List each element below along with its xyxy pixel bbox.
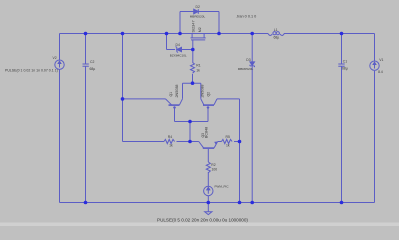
svg-text:8.4: 8.4 (378, 70, 383, 74)
svg-text:1k: 1k (226, 144, 230, 148)
wire R5 row right (234, 141, 240, 143)
transistor Q1 (166, 99, 183, 105)
svg-text:MBR0520L: MBR0520L (238, 67, 254, 71)
diode D3 (250, 62, 255, 67)
resistor R1 (191, 63, 195, 74)
transistor Q2 (201, 99, 217, 105)
wire bottom rail (60, 202, 375, 204)
svg-text:68µ: 68µ (342, 67, 348, 71)
wire Q2 collector (200, 83, 202, 99)
voltage source V1 (370, 61, 379, 70)
svg-text:PULSE(0 1 0.02 1n 1n 0.07 0.1: PULSE(0 1 0.02 1n 1n 0.07 0.1 1) (5, 69, 58, 73)
voltage source V3 PWM_PIC (204, 186, 213, 195)
wire R1 bottom (192, 74, 194, 83)
wire C1 bottom (341, 67, 343, 203)
wire emitter junction drop (189, 122, 191, 142)
resistor R5 (222, 139, 233, 143)
wire M2 gate down (192, 40, 194, 63)
svg-text:D3: D3 (246, 58, 250, 62)
capacitor C1 (338, 64, 344, 66)
svg-text:BC848: BC848 (205, 127, 209, 138)
resistor R4 (164, 139, 175, 143)
wire D3 top (251, 34, 253, 62)
svg-text:R4: R4 (168, 135, 172, 139)
wire C2 top (85, 34, 87, 64)
svg-text:R2: R2 (211, 163, 215, 167)
svg-text:Q2: Q2 (206, 92, 210, 97)
transistor M2 (191, 34, 206, 40)
svg-text:PULSE(0 5 0.02 20n 20n 0.00u 0: PULSE(0 5 0.02 20n 20n 0.00u 0u 1000000) (157, 218, 248, 223)
wire V1 bottom (374, 71, 376, 203)
wire R2 to source (207, 172, 209, 186)
wire V2 top (59, 34, 61, 61)
wire top loop horizontal (180, 11, 219, 13)
wire source to rail (207, 196, 209, 203)
svg-text:2N5088: 2N5088 (200, 85, 204, 98)
wire emitter rail (175, 121, 209, 123)
inductor L1 (268, 32, 284, 36)
svg-text:C1: C1 (343, 59, 347, 63)
svg-text:D2: D2 (196, 5, 200, 9)
wire top loop left vertical (179, 12, 181, 34)
wire Q1 emitter (174, 107, 176, 122)
transistor Q3 (199, 142, 218, 149)
wire C2 bottom (85, 67, 87, 203)
svg-text:68µ: 68µ (90, 67, 96, 71)
svg-text:Si2347: Si2347 (190, 20, 195, 32)
wire D3 bottom (251, 67, 253, 203)
wire V1 top (374, 34, 376, 61)
svg-text:.tran 0 0.1 0: .tran 0 0.1 0 (236, 14, 256, 18)
wire D4 right (182, 49, 193, 51)
wire x239 vertical (239, 99, 241, 203)
wire D4 drop (166, 34, 168, 50)
svg-text:1k: 1k (196, 69, 200, 73)
arrow Q2 emitter (207, 106, 210, 110)
diode D2 (194, 9, 199, 14)
svg-text:68µ: 68µ (274, 36, 280, 40)
arrow Q3 emitter (214, 142, 217, 145)
wire Q3 bottom pin (207, 149, 209, 162)
resistor R2 (206, 162, 210, 173)
wire R5 row left (218, 141, 222, 143)
svg-text:R5: R5 (226, 135, 230, 139)
wire C1 top (341, 34, 343, 64)
ground (205, 212, 212, 215)
wire top loop right vertical (218, 12, 220, 34)
wire R4 row right (177, 141, 191, 143)
svg-text:D4: D4 (176, 43, 180, 47)
svg-text:L1: L1 (274, 28, 278, 32)
wire D4 left (167, 49, 176, 51)
svg-text:C2: C2 (90, 60, 94, 64)
svg-text:V1: V1 (379, 58, 383, 62)
svg-text:R1: R1 (196, 63, 200, 67)
wire top rail (60, 33, 269, 35)
wire Q1 collector (182, 83, 184, 99)
svg-text:Q1: Q1 (169, 92, 173, 97)
wire Q3 base (190, 141, 199, 143)
wire Q2 base to corner (217, 98, 240, 100)
svg-text:V2: V2 (53, 56, 57, 60)
status bar strip (0, 223, 399, 227)
svg-text:1k: 1k (169, 144, 173, 148)
wire x122 vertical (122, 34, 124, 142)
arrow Q1 emitter (173, 106, 176, 110)
wire R4 row left (123, 141, 165, 143)
zener diode D4 (176, 47, 182, 53)
svg-text:PWM_PIC: PWM_PIC (215, 185, 230, 189)
svg-text:MBR0520L: MBR0520L (190, 14, 206, 18)
voltage source V2 (55, 60, 64, 69)
wire ground stub (207, 203, 209, 212)
svg-text:M2: M2 (198, 27, 202, 32)
wire V2 bottom (59, 69, 61, 202)
capacitor C2 (83, 64, 89, 66)
wire collector bus (183, 82, 201, 84)
svg-text:100: 100 (212, 168, 218, 172)
wire Q2 emitter (207, 107, 209, 122)
svg-text:BZX84C10L: BZX84C10L (170, 53, 187, 57)
wire Q1 base (123, 98, 166, 100)
svg-text:2N5088: 2N5088 (175, 85, 179, 98)
